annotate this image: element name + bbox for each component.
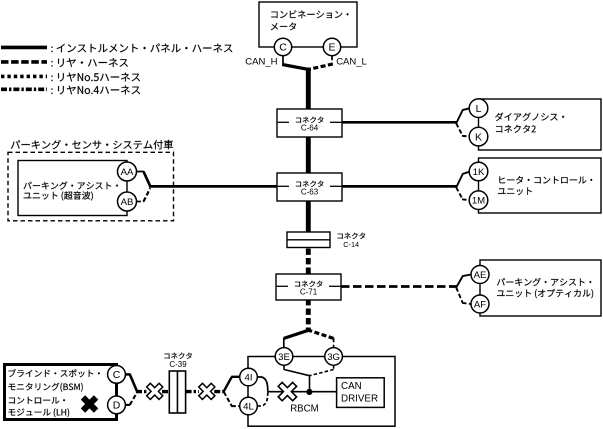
BSM control module box [5, 365, 117, 420]
wire: 3E internal down [283, 365, 285, 370]
wire: meter pin C down (CAN_H) [282, 56, 284, 64]
svg-text:D: D [113, 400, 121, 412]
wire: branch diagonal to 4I (solid) [224, 377, 232, 392]
heater control unit box [479, 158, 602, 213]
wire: branch to pin AF horiz [462, 303, 471, 304]
svg-text:CAN: CAN [341, 381, 362, 392]
BSM label line2 [9, 383, 83, 392]
wire: split diagonal to 3G (dashed) [307, 330, 333, 339]
wire: pin C out [125, 373, 130, 376]
wire: pin D diagonal to merge [130, 392, 137, 405]
svg-text:RBCM: RBCM [290, 403, 319, 414]
wire: meter pin E down (CAN_L) [331, 56, 333, 64]
wire: internal vertical to junction [309, 376, 311, 392]
combination meter box [259, 2, 357, 47]
connector C-39 symbol [169, 371, 185, 413]
svg-text:C-71: C-71 [300, 288, 318, 297]
svg-text:AB: AB [121, 197, 134, 208]
wire: CAN_L diagonal to trunk [308, 64, 333, 70]
combination meter label line2 [271, 23, 296, 31]
pin 3G of RBCM [325, 348, 343, 366]
diagnosis connector label line2 [496, 125, 536, 133]
svg-text:CAN_L: CAN_L [336, 57, 367, 68]
connector C-63 box [277, 173, 342, 201]
wire: C-71 to parking assist optical (rear harness) [341, 285, 457, 288]
BSM label line1 [9, 369, 100, 377]
C-71 right stub [329, 285, 340, 287]
svg-text:C: C [279, 42, 287, 54]
pin AA of parking assist ultrasonic [118, 162, 137, 181]
wire: pin C diagonal to merge [130, 374, 137, 391]
svg-text:3E: 3E [278, 352, 290, 363]
wire: trunk meter to C-64 (instrument panel harness) [306, 68, 311, 111]
CAN DRIVER box [337, 378, 385, 408]
pin AF of parking assist optical [471, 295, 489, 313]
wire: CAN_H diagonal to trunk [282, 65, 309, 70]
wire: C-39 to splice X right [186, 390, 199, 393]
svg-text:1K: 1K [473, 167, 485, 178]
wire: 3G internal down [333, 365, 335, 370]
wire: branch to pin AE (solid) [456, 277, 462, 288]
wire: down to pin 3E [283, 338, 285, 348]
wire: trunk C-71 down to split (rear harness) [306, 299, 311, 331]
connector C-71 label [295, 281, 323, 287]
svg-text:AF: AF [474, 299, 486, 310]
wire: 3G internal diagonal [310, 370, 334, 376]
wire: X to connector C-39 [162, 390, 170, 393]
svg-text:K: K [475, 131, 482, 143]
legend label: instrument panel harness [51, 44, 232, 53]
C-64 left stub [278, 121, 289, 123]
svg-text:C-63: C-63 [301, 188, 319, 197]
BSM label line4 [9, 408, 70, 417]
splice mark X right of C-39 [194, 379, 219, 404]
pin E of combination meter [323, 38, 340, 55]
C-64 right stub [330, 121, 341, 123]
wire: BSM to splice X (No.4 harness) [136, 390, 148, 393]
pin C of combination meter [274, 38, 291, 55]
pin D of BSM module [108, 396, 126, 414]
pin 1M of heater control unit [469, 191, 488, 210]
parking assist ultrasonic label line1 [24, 182, 118, 190]
svg-text:C-64: C-64 [301, 124, 319, 133]
wire: pin D out (dashed) [125, 404, 130, 406]
pin 1K of heater control unit [469, 162, 488, 181]
connector C-39 divider [176, 371, 178, 413]
pin L of diagnosis connector [469, 99, 488, 118]
wire: C-63 to heater control unit [342, 185, 457, 188]
svg-text:DRIVER: DRIVER [341, 393, 378, 404]
legend label: rear No.4 harness [51, 86, 140, 95]
wire: C-64 to diagnosis connector 2 [342, 121, 457, 124]
wire: branch horiz to 4L [231, 405, 240, 407]
svg-text:L: L [476, 103, 482, 115]
wire: branch to pin AF (dashed) [456, 288, 462, 303]
wire: internal horizontal to CAN driver [268, 391, 337, 393]
splice mark X inside RBCM [273, 377, 302, 406]
svg-text:4I: 4I [244, 372, 252, 383]
connector C-14 box [287, 232, 330, 248]
pin C of BSM module [108, 366, 126, 384]
svg-text:AE: AE [474, 270, 487, 281]
legend sample: rear No.5 harness (dotted) [1, 75, 47, 79]
parking assist optical label line2 [497, 289, 593, 298]
RBCM box [248, 357, 395, 427]
wire: branch diagonal to 4L (dashed) [224, 392, 232, 406]
wire: 3E internal diagonal [284, 370, 310, 376]
wire: branch to pin 1K (solid) [456, 175, 462, 188]
connector C-71 box [276, 274, 341, 300]
C-14 divider [287, 239, 330, 241]
wire: split diagonal to 3E (solid) [284, 330, 310, 339]
connector C-64 label [296, 117, 324, 123]
wire: branch to pin AE horiz [462, 275, 471, 277]
connector C-64 box [277, 109, 342, 137]
wire: branch horiz to 4I [231, 376, 240, 378]
svg-text:E: E [328, 42, 335, 54]
wire: X to 4I/4L branch [214, 390, 224, 393]
wire: branch to pin K horiz [462, 135, 470, 138]
C-63 left stub [278, 185, 289, 187]
wire: trunk C-14 to C-71 (rear harness) [306, 249, 311, 276]
wire: branch to pin 1M horiz [462, 198, 470, 201]
svg-text:CAN_H: CAN_H [245, 57, 277, 68]
combination meter label line1 [271, 10, 348, 18]
pin 4L of RBCM [240, 397, 258, 415]
wire: branch to pin 1K horiz [462, 172, 470, 175]
wire: pin AA out (solid) [136, 171, 144, 173]
svg-text:4L: 4L [243, 401, 254, 412]
legend sample: rear harness (dashed) [1, 60, 47, 64]
wire: pin AB out (dashed) [136, 201, 144, 203]
wire: branch to pin L horiz [462, 108, 470, 110]
wire: trunk C-63 to C-14 [306, 200, 311, 233]
pin 4I of RBCM [240, 368, 258, 386]
junction node inside RBCM [306, 389, 312, 395]
wire: branch to pin L (solid) [456, 111, 462, 124]
svg-text:C-39: C-39 [169, 360, 187, 369]
pin AE of parking assist optical [471, 266, 489, 284]
svg-text:3G: 3G [327, 352, 340, 363]
pin K of diagnosis connector [469, 127, 488, 146]
wire: branch to pin 1M (dashed) [456, 187, 462, 199]
svg-text:C-14: C-14 [343, 240, 359, 249]
connector C-63 label [296, 181, 324, 187]
heater control label line1 [499, 176, 592, 184]
legend sample: rear No.4 harness (dash-dot) [1, 88, 47, 92]
wire: pin AA diagonal to merge [144, 172, 151, 187]
legend sample: instrument panel harness (solid) [1, 46, 47, 50]
connector C-14 label [338, 233, 366, 239]
svg-text:AA: AA [121, 167, 134, 178]
splice mark X left of C-39 [142, 379, 167, 404]
BSM label line3 [9, 397, 65, 404]
svg-text:C: C [113, 369, 121, 381]
parking assist unit (optical) box [480, 260, 601, 316]
connector C-39 label [164, 353, 192, 359]
C-63 right stub [330, 185, 341, 187]
parking assist optical label line1 [497, 278, 591, 286]
wire: pin AB diagonal to merge [144, 188, 151, 201]
diagnosis connector 2 box [479, 99, 602, 150]
pin AB of parking assist ultrasonic [118, 192, 137, 211]
heater control label line2 [498, 188, 532, 196]
wire: branch to pin K (dashed) [456, 123, 462, 135]
dashed enclosure: parking sensor system [8, 152, 174, 221]
legend label: rear No.5 harness [51, 73, 140, 82]
wire: trunk C-64 to C-63 [306, 136, 311, 174]
wire: pin 4I internal curve [257, 377, 268, 392]
pin 3E of RBCM [275, 348, 293, 366]
diagnosis connector label line1 [495, 113, 564, 121]
svg-text:1M: 1M [472, 196, 485, 207]
wire: down to pin 3G [333, 338, 335, 348]
C-71 left stub [277, 285, 288, 287]
wire: pin 4L internal curve (dashed) [257, 392, 268, 406]
legend label: rear harness [51, 58, 128, 67]
parking assist ultrasonic label line2 [24, 191, 93, 200]
label: with parking sensor system [11, 140, 173, 149]
wire: parking assist to C-63 [149, 185, 277, 188]
filled X mark in BSM box [76, 391, 102, 417]
parking assist unit (ultrasonic) box [18, 161, 127, 216]
